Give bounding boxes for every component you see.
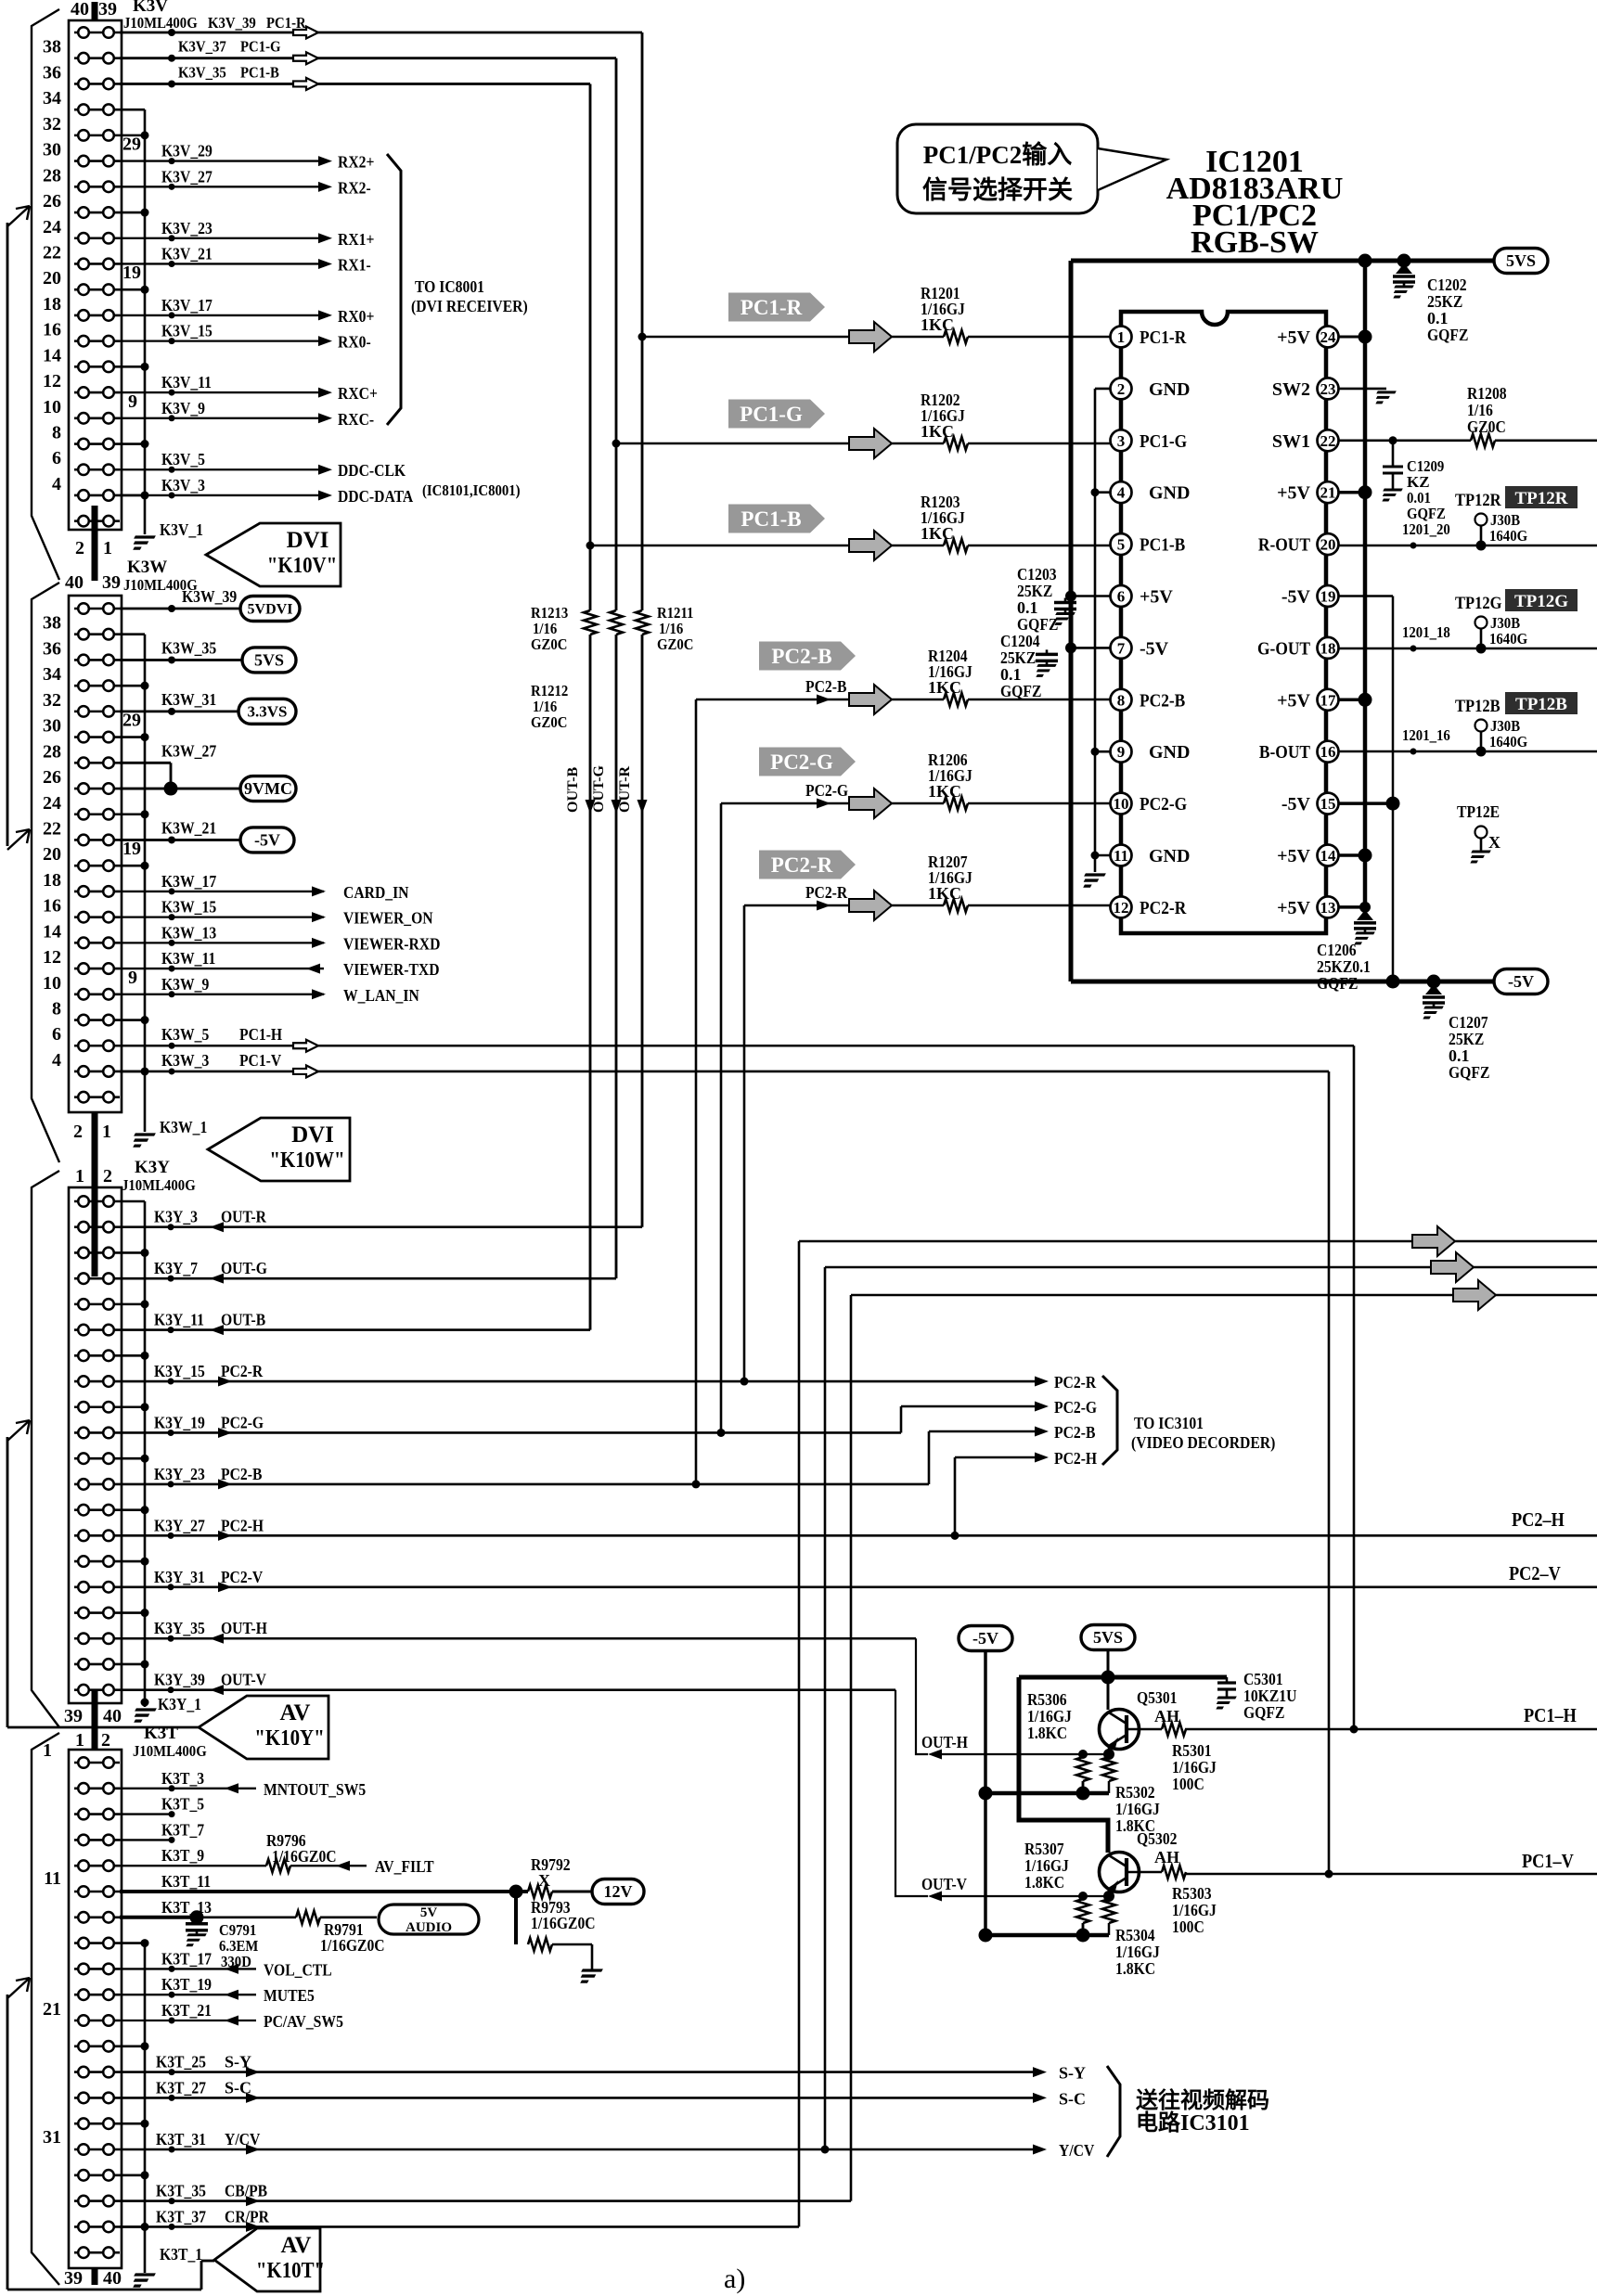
power flag 3.3VS: [238, 699, 296, 724]
svg-text:PC/AV_SW5: PC/AV_SW5: [264, 2012, 343, 2031]
bracket K3Y: [32, 1171, 59, 1727]
svg-text:PC2-V: PC2-V: [221, 1568, 263, 1586]
IC pin 8: [1111, 689, 1132, 711]
svg-text:R5303: R5303: [1172, 1884, 1212, 1903]
label TO IC3101: [1131, 1414, 1275, 1453]
resistor R1203: [944, 539, 968, 552]
svg-text:K3T_17: K3T_17: [161, 1949, 212, 1968]
svg-text:10: 10: [43, 397, 61, 417]
svg-text:S-C: S-C: [225, 2078, 251, 2097]
svg-text:GND: GND: [1149, 483, 1190, 504]
wire q top bus: [1019, 1675, 1227, 1680]
power flag 5VDVI: [240, 596, 300, 622]
svg-text:25KZ0.1: 25KZ0.1: [1317, 957, 1371, 976]
wire +5V top bus: [1071, 254, 1494, 268]
label R5307: [1024, 1840, 1069, 1892]
svg-text:40: 40: [103, 2268, 122, 2289]
wire K3V_37 PC1-G net: [120, 55, 616, 62]
svg-text:1.8KC: 1.8KC: [1027, 1724, 1067, 1742]
arrow RX2-: [318, 182, 332, 192]
svg-text:K3V_17: K3V_17: [161, 296, 213, 314]
svg-text:RXC-: RXC-: [338, 410, 374, 429]
svg-text:PC2-G: PC2-G: [221, 1413, 264, 1431]
svg-text:1201_20: 1201_20: [1402, 520, 1450, 538]
connector K3W J10ML400G body: [69, 596, 122, 1112]
wire K3T_37 CR/PR: [120, 2224, 799, 2230]
svg-text:1640G: 1640G: [1489, 733, 1527, 750]
svg-text:8: 8: [1117, 691, 1126, 709]
svg-text:28: 28: [43, 741, 61, 762]
resistor R1213: [584, 610, 597, 635]
wire R-OUT: [1339, 541, 1597, 551]
wire PC2-H branch: [951, 1457, 1040, 1540]
wire net OUT-B vertical: [589, 83, 592, 610]
arrow VIEWER-TXD: [306, 964, 320, 974]
arrow CB/PB small: [246, 2196, 260, 2206]
svg-text:8: 8: [52, 999, 61, 1020]
svg-text:6: 6: [52, 1024, 61, 1045]
resistor R9791: [296, 1911, 320, 1924]
wire K3Y_19 PC2-G: [120, 1430, 901, 1436]
wire PC2-B vertical: [692, 699, 701, 1488]
connector K3T J10ML400G body: [69, 1750, 122, 2268]
label R1206: [928, 750, 972, 801]
capacitor C1202: [1389, 263, 1415, 297]
svg-text:VIEWER-RXD: VIEWER-RXD: [343, 934, 440, 953]
capacitor C5301: [1212, 1677, 1236, 1708]
svg-text:1/16GZ0C: 1/16GZ0C: [272, 1847, 337, 1866]
wire 5VS to bus: [1101, 1650, 1115, 1710]
svg-text:1: 1: [75, 1730, 84, 1751]
IC pin 17: [1318, 689, 1339, 711]
svg-text:G-OUT: G-OUT: [1257, 638, 1311, 659]
wire K3T ground bus: [120, 1939, 149, 2273]
svg-text:1/16GJ: 1/16GJ: [1172, 1901, 1217, 1919]
arrow CARD_IN: [312, 886, 326, 896]
svg-text:PC1-B: PC1-B: [741, 507, 801, 531]
wire K3W_11 VIEWER-TXD: [120, 966, 324, 972]
svg-text:K3Y_23: K3Y_23: [154, 1465, 205, 1483]
resistor R5306: [1076, 1757, 1089, 1781]
label R1212: [531, 682, 568, 731]
svg-text:RXC+: RXC+: [338, 384, 378, 403]
power flag 5V AUDIO: [379, 1905, 479, 1935]
svg-text:-5V: -5V: [1508, 972, 1534, 991]
label R9791: [320, 1920, 385, 1955]
svg-text:2: 2: [73, 1122, 83, 1142]
svg-text:"K10Y": "K10Y": [254, 1726, 324, 1751]
sheet arrow K3V: [7, 206, 30, 226]
svg-text:1640G: 1640G: [1489, 630, 1527, 648]
svg-text:RX0+: RX0+: [338, 307, 374, 326]
wire K3T_25 S-Y: [120, 2069, 1039, 2075]
svg-text:5VS: 5VS: [1506, 251, 1536, 270]
label C1203: [1017, 565, 1058, 634]
wire PC1-V line: [1185, 1873, 1597, 1876]
svg-text:330D: 330D: [221, 1953, 251, 1970]
arrow DDC-CLK: [318, 465, 332, 475]
resistor R1201: [944, 330, 968, 343]
svg-text:K3V_21: K3V_21: [161, 244, 213, 263]
svg-text:K3V_11: K3V_11: [161, 373, 212, 391]
wire K3V_21 RX1-: [120, 261, 319, 267]
svg-text:1KC: 1KC: [928, 678, 961, 697]
IC pin 23: [1318, 378, 1339, 399]
connector K3Y mating bar bottom: [92, 1689, 98, 1750]
svg-text:MUTE5: MUTE5: [264, 1986, 315, 2005]
svg-text:Q5301: Q5301: [1137, 1688, 1178, 1707]
label Q5302: [1137, 1829, 1179, 1866]
wire K3W_31: [120, 708, 238, 715]
resistor R1202: [944, 437, 968, 450]
power flag 5VS top: [1494, 249, 1548, 274]
wire K3T_19 MUTE5: [120, 1992, 256, 1998]
sheet arrow K3Y: [7, 1420, 30, 1441]
ground R9793: [576, 1970, 602, 1982]
svg-text:3.3VS: 3.3VS: [248, 703, 288, 721]
arrow OUT-H in: [210, 1634, 224, 1644]
wire pin22 SW1 out: [1339, 436, 1597, 444]
svg-text:SW2: SW2: [1272, 379, 1310, 400]
label R1211: [657, 604, 693, 653]
connector K3W left pin numbers: [43, 613, 61, 1071]
svg-text:18: 18: [43, 294, 61, 314]
svg-text:10: 10: [43, 973, 61, 994]
svg-text:K3T_11: K3T_11: [161, 1872, 211, 1891]
svg-text:4: 4: [52, 474, 61, 494]
connector K3V top pin numbers: [71, 0, 117, 19]
fat arrow PC1-R: [849, 322, 892, 352]
svg-text:14: 14: [43, 345, 61, 366]
arrow RXC+: [318, 388, 332, 398]
svg-text:K3W_39: K3W_39: [182, 587, 237, 606]
svg-text:TP12R: TP12R: [1455, 491, 1501, 510]
svg-text:K3Y: K3Y: [135, 1158, 170, 1177]
IC pin 2: [1111, 378, 1132, 399]
svg-text:20: 20: [1320, 536, 1336, 554]
svg-text:PC2-G: PC2-G: [770, 750, 833, 774]
wire K3W_39: [120, 605, 240, 612]
svg-text:0.1: 0.1: [1449, 1046, 1470, 1065]
capacitor C1207: [1419, 984, 1445, 1018]
connector K3T top pin numbers: [75, 1730, 110, 1751]
capacitor C1203: [1050, 598, 1076, 624]
svg-text:OUT-B: OUT-B: [221, 1311, 265, 1329]
resistor R5302: [1102, 1757, 1115, 1781]
svg-text:PC2-R: PC2-R: [805, 883, 848, 902]
svg-text:PC1-R: PC1-R: [1140, 327, 1187, 348]
svg-text:(IC8101,IC8001): (IC8101,IC8001): [422, 481, 521, 499]
svg-text:K3V_5: K3V_5: [161, 450, 205, 468]
svg-text:J10ML400G: J10ML400G: [123, 14, 198, 32]
resistor R9792: [528, 1885, 552, 1898]
svg-text:S-Y: S-Y: [225, 2053, 251, 2072]
svg-text:31: 31: [43, 2127, 61, 2148]
wire K3W_15 VIEWER_ON: [120, 914, 324, 920]
IC pin 18: [1318, 637, 1339, 659]
fat arrow PC2-R: [849, 891, 892, 920]
svg-text:40: 40: [65, 572, 84, 593]
wire pin14 to +5V bus: [1339, 849, 1372, 863]
testpoint TP12R J30B: [1475, 514, 1488, 546]
svg-text:K3W_9: K3W_9: [161, 975, 209, 994]
svg-text:CARD_IN: CARD_IN: [343, 883, 409, 902]
wire PC2-B to IC: [696, 699, 1111, 701]
svg-text:GZ0C: GZ0C: [531, 713, 567, 731]
svg-text:11: 11: [1114, 847, 1128, 865]
svg-text:信号选择开关: 信号选择开关: [922, 176, 1073, 204]
svg-text:PC2-G: PC2-G: [1054, 1398, 1097, 1417]
wire K3V ground bus: [120, 109, 149, 534]
ground K3T_1: [129, 2275, 155, 2286]
svg-text:36: 36: [43, 638, 61, 659]
testpoint TP12B J30B: [1475, 720, 1488, 752]
wire K3V_35 PC1-B net: [120, 80, 590, 87]
svg-text:GZ0C: GZ0C: [1467, 417, 1506, 436]
wire K3W_9 W_LAN_IN: [120, 991, 324, 997]
svg-text:30: 30: [43, 716, 61, 737]
wire K3Y_31 PC2-V: [120, 1584, 1597, 1590]
wire q5301 base: [1127, 1728, 1162, 1731]
fat arrow y1396: [1453, 1280, 1496, 1310]
svg-text:100C: 100C: [1172, 1918, 1204, 1936]
svg-text:C1206: C1206: [1317, 941, 1357, 959]
svg-text:29: 29: [122, 711, 141, 731]
wire K3V_29 RX2+: [120, 158, 319, 164]
wire K3V_39 PC1-R net: [120, 29, 642, 36]
wire K3T_9 AV_FILT: [120, 1865, 367, 1866]
svg-text:16: 16: [1320, 743, 1336, 761]
svg-text:K3T_7: K3T_7: [161, 1820, 204, 1839]
power flag 5VS q: [1081, 1625, 1135, 1650]
wire K3V_15 RX0-: [120, 338, 319, 344]
wire OUT-V route: [895, 1690, 928, 1896]
svg-text:CR/PR: CR/PR: [225, 2207, 270, 2225]
svg-text:K3W_17: K3W_17: [161, 872, 216, 891]
wire left edge bus 1: [6, 223, 9, 846]
svg-text:25KZ: 25KZ: [1017, 582, 1052, 600]
svg-text:23: 23: [1320, 380, 1336, 398]
svg-text:OUT-H: OUT-H: [921, 1733, 968, 1751]
svg-text:K3T_35: K3T_35: [156, 2182, 206, 2200]
power flag 5VS: [242, 648, 296, 673]
arrow Y/CV to IC3101: [1033, 2145, 1047, 2155]
wire K3Y_3 OUT-R: [120, 1224, 642, 1230]
svg-text:12: 12: [1114, 899, 1129, 917]
svg-text:PC2-B: PC2-B: [1140, 690, 1185, 711]
label R1207: [928, 853, 972, 903]
svg-text:24: 24: [43, 793, 61, 814]
wire -5V bottom bus: [1071, 975, 1494, 989]
svg-text:8: 8: [52, 423, 61, 443]
svg-text:OUT-G: OUT-G: [591, 764, 607, 813]
svg-text:PC2-R: PC2-R: [1140, 898, 1187, 918]
label C1206: [1317, 941, 1371, 993]
svg-text:18: 18: [43, 870, 61, 891]
svg-text:24: 24: [1320, 328, 1337, 346]
connector K3V mating bar bottom: [92, 506, 98, 581]
bracket TO IC8001: [387, 154, 401, 425]
wire PC2-R vertical: [741, 905, 749, 1386]
arrow OUT-R in: [210, 1222, 224, 1232]
callout pointer: [1098, 148, 1166, 190]
wire -5V vertical: [1392, 596, 1395, 982]
wire K3V_27 RX2-: [120, 184, 319, 190]
svg-text:AH: AH: [1154, 1707, 1179, 1725]
wire K3V_5 DDC-CLK: [120, 467, 319, 473]
svg-text:1/16GJ: 1/16GJ: [1115, 1800, 1160, 1818]
svg-text:RGB-SW: RGB-SW: [1191, 225, 1319, 260]
IC pin 5: [1111, 533, 1132, 555]
svg-text:GQFZ: GQFZ: [1427, 326, 1468, 344]
wire -5V row2: [985, 1923, 1109, 1943]
wire left edge bus 3: [7, 1995, 214, 2290]
wire B-OUT: [1339, 747, 1597, 757]
wire net OUT-G vertical: [615, 58, 618, 610]
svg-text:TP12B: TP12B: [1455, 697, 1500, 716]
svg-text:R5301: R5301: [1172, 1741, 1212, 1760]
svg-text:VIEWER-TXD: VIEWER-TXD: [343, 960, 440, 979]
open arrow PC1-B: [293, 78, 318, 90]
wire pin13 stub: [1339, 902, 1371, 913]
arrow OUT-B down: [586, 800, 596, 814]
wire net OUT-R vertical lower: [641, 635, 644, 1227]
wire K3W_27 to 9VMC: [120, 763, 240, 795]
arrow PC/AV_SW5: [225, 2016, 238, 2026]
svg-text:"K10T": "K10T": [256, 2259, 325, 2283]
svg-text:PC1-B: PC1-B: [240, 63, 279, 81]
power flag 9VMC: [240, 776, 296, 802]
svg-text:OUT-B: OUT-B: [565, 766, 581, 813]
arrow RX0+: [318, 310, 332, 320]
svg-text:26: 26: [43, 767, 61, 788]
bracket IC3101: [1102, 1376, 1117, 1465]
svg-text:RX2-: RX2-: [338, 178, 371, 197]
svg-text:PC2–V: PC2–V: [1509, 1562, 1561, 1584]
IC pin 9: [1111, 741, 1132, 763]
arrow OUT-B in: [210, 1325, 224, 1335]
svg-text:K3V_23: K3V_23: [161, 219, 213, 237]
svg-text:K3V_1: K3V_1: [160, 520, 203, 539]
power flag -5V: [240, 827, 294, 853]
svg-text:K3Y_31: K3Y_31: [154, 1568, 205, 1586]
wire K3Y_7 OUT-G: [120, 1276, 616, 1282]
svg-text:K3T_37: K3T_37: [156, 2207, 206, 2225]
svg-text:1/16GZ0C: 1/16GZ0C: [320, 1936, 385, 1955]
svg-text:+5V: +5V: [1277, 483, 1310, 504]
badge PC2-R: [759, 851, 856, 879]
svg-text:GQFZ: GQFZ: [1000, 682, 1041, 700]
wire left edge bus 2: [7, 1437, 199, 1727]
svg-text:0.1: 0.1: [1427, 309, 1449, 327]
svg-text:K3V_3: K3V_3: [161, 476, 205, 494]
banner AV K10Y: [199, 1696, 328, 1759]
arrow OUT-G down: [612, 800, 622, 814]
connector K3V J10ML400G body: [69, 20, 122, 530]
wire K3V_9 RXC-: [120, 415, 319, 421]
label C1209: [1407, 457, 1446, 522]
svg-text:+5V: +5V: [1140, 587, 1173, 608]
label Q5301: [1137, 1688, 1179, 1725]
svg-text:34: 34: [43, 664, 61, 685]
svg-text:-5V: -5V: [1281, 794, 1311, 815]
svg-text:DVI: DVI: [291, 1122, 334, 1148]
svg-text:K3W_13: K3W_13: [161, 923, 216, 942]
svg-text:20: 20: [43, 268, 61, 289]
arrow OUT-G in: [210, 1274, 224, 1284]
svg-text:Y/CV: Y/CV: [1059, 2141, 1094, 2160]
wire R9792 to 12V: [552, 1891, 592, 1893]
svg-text:40: 40: [71, 0, 89, 19]
svg-text:K3Y_3: K3Y_3: [154, 1208, 198, 1226]
svg-text:K3W_11: K3W_11: [161, 949, 215, 968]
svg-text:PC1-B: PC1-B: [1140, 535, 1185, 556]
svg-text:38: 38: [43, 613, 61, 634]
svg-text:TP12E: TP12E: [1457, 802, 1500, 821]
svg-text:C1203: C1203: [1017, 565, 1057, 584]
connector K3W inner pin numbers: [122, 711, 141, 988]
svg-text:PC1-V: PC1-V: [239, 1051, 281, 1070]
svg-text:GQFZ: GQFZ: [1243, 1703, 1284, 1722]
svg-text:PC1-R: PC1-R: [266, 14, 306, 32]
svg-text:MNTOUT_SW5: MNTOUT_SW5: [264, 1780, 366, 1799]
svg-text:a): a): [724, 2264, 745, 2294]
wire PC1-V vertical: [1325, 1071, 1333, 1879]
svg-text:PC1-G: PC1-G: [240, 38, 281, 56]
wire PC2-R to IC: [744, 904, 1111, 907]
svg-text:1: 1: [43, 1740, 52, 1761]
banner DVI K10V: [206, 523, 341, 586]
svg-text:R9792: R9792: [531, 1855, 571, 1874]
svg-text:26: 26: [43, 191, 61, 212]
arrow RX0-: [318, 336, 332, 346]
svg-text:C1207: C1207: [1449, 1013, 1488, 1032]
banner AV K10T: [214, 2228, 325, 2291]
wire K3Y_35 OUT-H: [120, 1635, 916, 1642]
svg-text:19: 19: [1320, 588, 1336, 606]
svg-text:K3W_5: K3W_5: [161, 1025, 209, 1044]
badge PC1-G: [728, 400, 825, 429]
svg-text:1/16GJ: 1/16GJ: [1024, 1856, 1069, 1875]
svg-text:DDC-DATA: DDC-DATA: [338, 487, 413, 506]
svg-text:12: 12: [43, 947, 61, 968]
svg-text:1: 1: [75, 1166, 84, 1186]
svg-text:PC2-R: PC2-R: [1054, 1373, 1097, 1392]
svg-text:OUT-R: OUT-R: [221, 1208, 267, 1226]
wire OUT-V line: [933, 1892, 1109, 1901]
svg-text:K3Y_15: K3Y_15: [154, 1362, 205, 1380]
svg-text:GZ0C: GZ0C: [531, 635, 567, 653]
svg-text:3: 3: [1117, 432, 1126, 450]
bracket to IC3101 bottom: [1107, 2066, 1120, 2157]
wire K3Y ground bus: [120, 1201, 149, 1707]
arrow VOL_CTL: [225, 1964, 238, 1974]
wire PC1-B to IC: [586, 542, 1112, 550]
svg-text:电路IC3101: 电路IC3101: [1136, 2110, 1250, 2136]
wire K3W_17 CARD_IN: [120, 888, 324, 894]
wire left power vertical: [1069, 261, 1074, 981]
svg-text:S-Y: S-Y: [1059, 2064, 1086, 2083]
svg-text:K3Y_19: K3Y_19: [154, 1413, 205, 1431]
badge TP12B: [1505, 692, 1578, 714]
svg-text:5: 5: [1117, 536, 1126, 554]
svg-text:PC1-R: PC1-R: [741, 296, 803, 319]
svg-text:GQFZ: GQFZ: [1449, 1063, 1489, 1082]
svg-text:PC2-G: PC2-G: [1140, 794, 1188, 815]
svg-text:18: 18: [1320, 639, 1336, 657]
svg-text:AH: AH: [1154, 1848, 1179, 1866]
open arrow PC1-G: [293, 52, 318, 64]
